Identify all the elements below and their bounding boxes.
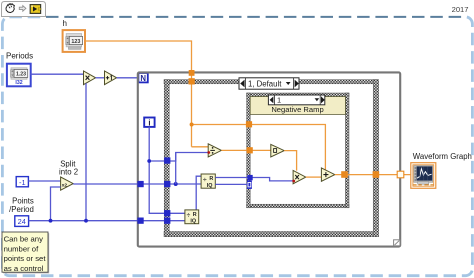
note can be any number [2,232,49,273]
junction split wire [174,182,178,186]
svg-text:1, Default: 1, Default [248,79,282,88]
tab arrow icon [19,6,26,12]
tunnel blue outer loop (split wire) [137,181,143,187]
tunnel blue case border (i wire lower) [164,210,170,216]
svg-text:24: 24 [18,217,26,226]
wire split output to quotient-remainder 1 [73,183,201,185]
wire t1 output to t2 [284,151,296,171]
svg-text:-1: -1 [19,178,26,187]
wire t3 output to graph [335,174,411,176]
split (scale by power of 2) function [61,177,74,190]
wire 24 branch up to split lower input [51,187,61,221]
wire QR1 R output to inner case [215,178,293,181]
svg-text:2017: 2017 [452,5,469,14]
tunnel blue indexing inner case (IQ wire) [247,181,252,189]
tunnel orange inner case (ramp wire) [247,147,253,153]
quotient-remainder 2 [185,210,199,225]
case selector (1, Default) [239,78,299,89]
wire multiply to +1 [96,77,105,79]
inner case structure checkered border [247,93,349,208]
constant -1 [16,177,28,187]
tunnel orange case right [373,171,380,178]
coercion dot t2 [292,180,295,183]
N terminal [138,73,147,83]
svg-text:N: N [140,74,146,83]
coercion dot divide [207,151,210,154]
wire QR2 R up to QR1 x input [196,176,201,210]
control h (DBL numeric) [63,30,85,52]
loop resize corner [394,240,400,246]
wire Periods to multiply [30,73,83,75]
junction 24/split [49,219,53,223]
wire h (orange) [85,41,326,170]
control Periods (I32 numeric) [7,64,31,87]
svg-text:I32: I32 [15,80,22,86]
svg-text:into 2: into 2 [59,168,78,177]
tunnel orange inner case (h wire) [246,121,252,127]
multiply function [84,71,96,85]
snippet tab [2,2,46,17]
tunnel white outer loop right [397,171,404,178]
svg-text:as a control: as a control [4,264,44,273]
snippet top dark dashed edge [46,15,462,18]
constant 24 [15,216,29,227]
tunnel blue case border (i wire upper) [164,157,170,163]
tab hand icon [6,4,14,13]
quotient-remainder 1 [201,174,215,189]
junction h wire [190,123,194,127]
increment function +1 [105,71,117,85]
svg-text:Negative Ramp: Negative Ramp [271,105,323,114]
wire 24 horizontal [29,220,185,222]
tab LabVIEW icon [30,5,41,14]
wire i down and branches [149,127,208,161]
function t1 inside inner case [271,144,284,157]
svg-text:Can be any: Can be any [4,235,43,244]
svg-text:Waveform Graph: Waveform Graph [413,152,472,161]
svg-text:R: R [209,176,213,182]
tunnel blue inner case (R wire) [247,175,252,180]
tunnel blue case border (24 wire) [164,218,170,224]
outer for-loop gray border [138,72,400,246]
function t2 multiply [293,170,306,183]
svg-text:h: h [63,19,67,28]
svg-text:IQ: IQ [190,219,196,225]
wire -1 to split [28,180,60,182]
svg-text:i: i [148,118,150,127]
case structure (1, Default) checkered border [164,80,379,237]
tunnel orange case top (h wire) [189,78,195,84]
i terminal [144,118,154,128]
svg-text:1: 1 [277,96,281,105]
svg-text:1.23: 1.23 [16,72,26,78]
function t3 add [321,168,334,181]
tunnel orange inner case right [341,171,348,178]
tunnel orange outer loop top (h wire) [189,70,195,76]
svg-text:x2: x2 [62,182,68,188]
wire t2 to t3 [306,176,322,178]
tunnel blue outer loop (24 wire) [137,218,143,224]
divide function [208,144,221,157]
svg-text:/Period: /Period [9,205,34,214]
svg-text:points or set: points or set [4,254,47,263]
wire vertical into divide path [175,153,177,185]
inner case tan header bar [250,97,345,115]
svg-text:123: 123 [71,39,80,45]
svg-text:IQ: IQ [207,183,213,189]
indicator Waveform Graph [411,163,436,189]
svg-text:number of: number of [4,244,39,253]
svg-text:Periods: Periods [6,52,33,61]
junction 24/vertical [84,219,88,223]
wire +1 to N [117,77,139,79]
inner case selector (1) [268,95,324,105]
wire 24 vertical to multiply [85,83,87,221]
svg-text:R: R [193,212,197,218]
wire divide output [221,149,270,151]
tunnel blue case border (split wire) [164,181,170,187]
wire QR1 IQ output to indexing tunnel [215,183,249,185]
